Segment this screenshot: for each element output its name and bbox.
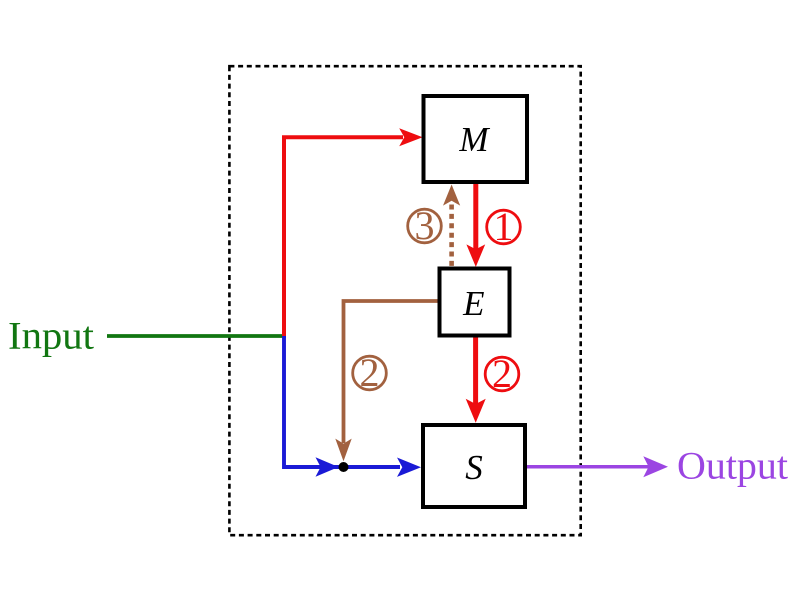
arrowhead into S	[397, 458, 421, 477]
wire: red branch up to M	[284, 137, 403, 336]
circled 2 (red)	[485, 357, 519, 391]
svg-text:Input: Input	[8, 315, 94, 358]
svg-text:2: 2	[360, 350, 380, 395]
arrowhead into S	[466, 399, 486, 423]
wire: blue branch down to S	[284, 336, 400, 467]
block S	[423, 425, 525, 507]
svg-text:M: M	[458, 120, 490, 159]
wire: brown dashed arrow E to M	[449, 205, 454, 267]
arrowhead into M	[399, 128, 422, 146]
block M	[424, 96, 528, 182]
svg-text:Output: Output	[677, 445, 788, 488]
wire: red arrow E to S	[473, 338, 478, 405]
arrowhead at junction	[316, 457, 339, 476]
arrowhead into M	[443, 185, 460, 206]
wire: green input line	[107, 334, 286, 338]
wire: brown feedback from E to junction	[344, 301, 438, 443]
wire: purple output line	[527, 465, 649, 469]
block E	[440, 269, 510, 336]
svg-text:S: S	[465, 448, 483, 487]
circled 2 (brown)	[353, 356, 387, 390]
circled 3 (brown)	[408, 209, 442, 243]
arrowhead into E	[466, 244, 485, 267]
svg-text:1: 1	[494, 204, 514, 249]
svg-text:2: 2	[492, 351, 512, 396]
arrowhead onto junction	[335, 439, 351, 462]
arrowhead to Output	[643, 456, 668, 477]
dashed system boundary	[229, 66, 580, 535]
circled 1 (red)	[487, 210, 521, 244]
svg-text:3: 3	[415, 203, 435, 248]
junction dot	[339, 462, 349, 472]
svg-text:E: E	[462, 284, 484, 323]
wire: red arrow M to E	[473, 184, 478, 250]
